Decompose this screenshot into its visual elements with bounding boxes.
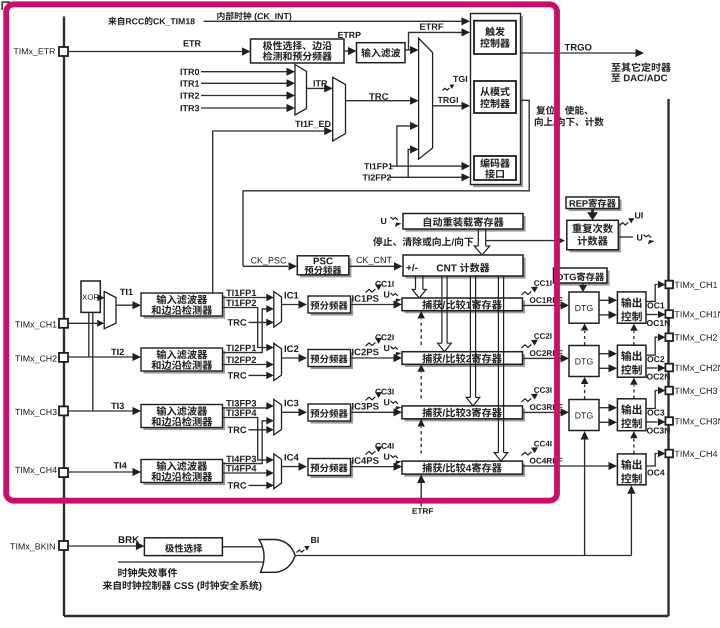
wire BRK: [68, 545, 136, 547]
arrowhead TI1F_ED: [324, 127, 333, 135]
wire TRGI: [433, 105, 462, 107]
label TI2: [111, 349, 124, 355]
arrowhead TI3FP3: [266, 402, 274, 410]
wire ITR1: [201, 82, 287, 84]
arrowhead TRC: [410, 97, 419, 105]
arrowhead TI2FP2 branch: [410, 145, 419, 153]
arrowhead ITR into TRC mux: [324, 84, 333, 92]
arrowhead TRC row3: [266, 426, 274, 434]
arrowhead OC2REF into DTG: [561, 354, 570, 362]
wire TI4FP3 cross up: [223, 421, 267, 464]
wire DTG3 out A: [599, 407, 609, 409]
box: capture/compare 1 register: [405, 301, 525, 314]
box: trigger/slave controller outer: [473, 16, 523, 187]
label +/-: [406, 264, 417, 271]
arrowhead IC2PS into CC2: [394, 354, 403, 362]
arrowhead OC3N: [658, 418, 666, 426]
event squiggle U row4: [391, 455, 398, 458]
label TI3FP3: [226, 400, 256, 407]
box: input filter (ETR): [357, 43, 406, 63]
label TIMx_CH1N: [675, 311, 720, 319]
mux: IC2 select: [274, 343, 282, 380]
wire dashed break chain output control: [633, 331, 635, 345]
arrowhead ETRP: [348, 47, 357, 55]
label OC3REF: [530, 404, 563, 410]
arrowhead TI1FP2 into IC mux: [266, 344, 274, 352]
wire IC4: [282, 466, 300, 468]
wire polarity to OR gate: [222, 546, 262, 548]
box: auto-reload register: [406, 216, 526, 232]
wire ETRP: [344, 50, 349, 52]
event squiggle U into ARR: [391, 217, 398, 220]
arrowhead CH1 into TI1 mux: [97, 320, 104, 327]
arrowhead OC3REF into DTG: [561, 408, 570, 416]
wire OC2N to pin: [646, 367, 658, 369]
arrowhead DTG1 out A: [609, 296, 618, 304]
box: REP register: [569, 200, 622, 212]
label OC1: [647, 302, 664, 308]
arrowhead TI1FP1 into encoder: [462, 162, 471, 170]
event squiggle CC1I right: [522, 291, 532, 295]
arrowhead OC4REF into output control 4: [609, 462, 618, 470]
label IC2PS: [352, 349, 379, 356]
wire dashed break chain DTG: [584, 331, 586, 345]
mux: TRC select: [333, 77, 346, 141]
pin TIMx_CH1N: [665, 310, 673, 318]
label TI2FP2: [226, 357, 256, 364]
pin TIMx_CH2N: [665, 364, 673, 372]
label TIMx_CH2 input: [15, 355, 56, 363]
event squiggle CC4I right: [522, 452, 532, 456]
wire XOR input from CH3: [92, 312, 94, 411]
wire dashed break chain DTG: [584, 385, 586, 400]
box: input filter edge detector 2: [144, 351, 226, 374]
pin TIMx_CH4: [665, 450, 673, 458]
box: DTG register: [556, 271, 610, 286]
box: slave mode controller: [474, 81, 516, 113]
box: output control 4: [617, 454, 646, 485]
label TI1FP1 (trigger): [364, 163, 393, 169]
arrowhead OC1: [658, 281, 666, 289]
box: prescaler 2: [311, 352, 354, 369]
label TI3: [111, 403, 124, 410]
label U row3: [384, 399, 389, 405]
arrowhead TI4: [133, 468, 142, 476]
label TIMx_CH1: [675, 282, 718, 290]
arrowhead ITR0: [287, 68, 296, 76]
arrowhead CK_CNT: [394, 262, 403, 270]
mux: trigger select (big): [419, 38, 433, 159]
label: stop clear up/down: [373, 237, 473, 246]
label U row2: [384, 345, 389, 351]
corner mark top-left: [2, 2, 10, 10]
wire CH1 to TI1 mux: [68, 322, 97, 324]
wire TRC row1: [249, 321, 267, 323]
label DTG 3: [575, 412, 592, 418]
wire CK_PSC: [243, 265, 288, 267]
label IC1PS: [352, 295, 379, 302]
event squiggle CC3I right: [522, 398, 532, 402]
label TI1: [120, 289, 133, 295]
wire TI1FP1 branch to big mux: [397, 126, 411, 166]
box: prescaler 1: [311, 299, 354, 316]
label CK_PSC: [251, 257, 286, 265]
arrowhead BI into output control 4: [627, 485, 635, 494]
wire bottom bus horizontal: [64, 615, 669, 617]
wire IC2PS: [351, 357, 394, 359]
wire XOR input from CH2: [88, 312, 90, 357]
arrowhead IC4PS into CC4: [394, 463, 403, 471]
label U (ARR): [381, 218, 386, 224]
arrowhead TRC row2: [266, 372, 274, 380]
label TIMx_CH4 input: [15, 467, 57, 475]
wire right bus vertical: [667, 99, 669, 616]
event squiggle TGI: [443, 88, 450, 91]
box: encoder interface: [474, 156, 516, 180]
label ETR: [184, 40, 201, 46]
wire TI2FP1 cross up: [223, 309, 267, 353]
label TI4: [114, 462, 127, 468]
pin TIMx_CH4 input: [59, 468, 68, 477]
wire TI3FP3: [223, 407, 267, 409]
wire BI up to output control 4: [630, 493, 632, 556]
arrowhead TI2: [133, 353, 142, 361]
label TIMx_ETR: [14, 48, 55, 56]
label TRC row2: [228, 372, 247, 379]
label BI: [311, 537, 319, 543]
mux: IC3 select: [274, 399, 282, 435]
wire DTG1 out A: [599, 299, 609, 301]
arrowhead DTG2 out A: [609, 350, 618, 358]
event squiggle U repetition: [644, 235, 651, 238]
pin TIMx_BKIN: [59, 541, 68, 550]
pin TIMx_ETR: [59, 47, 68, 56]
wire TI2FP2 trigger: [389, 176, 463, 178]
box: PSC prescaler: [300, 258, 352, 277]
label OC4REF: [530, 458, 563, 464]
arrowhead IC1PS into CC1: [394, 300, 403, 308]
mux: ITR select: [295, 65, 307, 116]
wire DTG3 out B: [599, 421, 609, 423]
event squiggle U row3: [391, 401, 398, 404]
arrowhead DTG3 out B: [609, 418, 618, 426]
arrowhead TI3: [133, 407, 142, 415]
pin TIMx_CH1: [665, 281, 673, 289]
box: capture/compare 3 register: [405, 409, 525, 422]
event squiggle CC4I left: [366, 451, 376, 455]
arrowhead TI1FP1 branch: [410, 122, 419, 130]
wire DTG1 out B: [599, 314, 609, 316]
arrowhead dashed into output control: [630, 378, 638, 385]
wire TRGO: [521, 52, 636, 54]
hollow arrow ARR to CNT: [478, 229, 485, 246]
label U row4: [384, 454, 389, 460]
pin TIMx_CH2 input: [59, 353, 68, 362]
wire TI1FP1: [223, 297, 267, 299]
wire IC1PS: [351, 304, 394, 306]
arrowhead ETRF dashed into CC: [417, 311, 425, 319]
label TI1F_ED: [295, 121, 331, 128]
box: polarity select edge detect prescaler: [251, 39, 345, 63]
label OC2N: [647, 374, 670, 380]
box: output control 1: [617, 292, 646, 323]
box: DTG 3: [569, 400, 599, 431]
arrowhead DTG register into DTG1: [579, 285, 587, 292]
arrowhead dashed into output control: [630, 324, 638, 331]
wire ETRF up and right: [409, 32, 463, 50]
label CK_CNT: [357, 257, 392, 265]
wire TI4FP4: [223, 472, 267, 474]
label TI1FP2: [226, 300, 256, 307]
arrowhead OC4: [658, 450, 666, 458]
box: CNT counter: [406, 258, 526, 279]
arrowhead TRC row4: [266, 482, 274, 490]
label CC1I left: [375, 281, 393, 287]
pin TIMx_CH1 input: [59, 319, 68, 328]
wire dashed break chain output control: [633, 439, 635, 454]
wire ETR: [68, 51, 242, 53]
label IC1: [285, 292, 299, 299]
arrowhead IC4: [299, 463, 308, 471]
label OC1REF: [530, 297, 563, 303]
label OC3: [647, 410, 664, 416]
wire ETRF dashed segment: [420, 319, 422, 345]
arrowhead OC3: [658, 387, 666, 395]
arrowhead TI4FP4: [266, 469, 274, 477]
arrowhead TI4FP3 into IC mux: [266, 417, 274, 425]
label TIMx_BKIN: [10, 543, 55, 551]
wire TRC to big mux: [346, 100, 411, 102]
wire dashed break chain output control: [633, 385, 635, 398]
label IC4: [285, 454, 299, 461]
label TRGI: [438, 97, 458, 103]
wire clock failure event: [118, 561, 263, 563]
box: capture/compare 2 register: [405, 354, 525, 367]
wire IC2: [282, 357, 300, 359]
label TRC row3: [228, 427, 247, 434]
arrowhead TI2FP1 into IC mux: [266, 305, 274, 313]
OR gate break: [259, 540, 295, 573]
label ITR0: [181, 69, 200, 75]
label: internal clock CK_INT: [217, 12, 291, 21]
pin TIMx_CH3: [665, 387, 673, 395]
label U (repetition): [637, 234, 642, 240]
wire BI distribution: [295, 555, 631, 557]
box: polarity select (BRK): [144, 538, 222, 556]
arrowhead DTG2 out B: [609, 364, 618, 372]
label CC4I left: [375, 443, 393, 449]
label TI4FP3: [226, 456, 256, 463]
wire TI3: [68, 410, 133, 412]
label TIMx_CH3 input: [15, 409, 57, 417]
label DTG 2: [575, 358, 592, 364]
hollow arrow CNT to CC1: [416, 276, 423, 290]
label TRGO: [565, 44, 592, 51]
wire IC3PS: [351, 411, 394, 413]
box: output control 2: [617, 345, 646, 377]
box: capture/compare 4 register: [405, 464, 525, 477]
wire ITR0: [201, 71, 287, 73]
event squiggle CC3I left: [366, 397, 376, 401]
hollow arrow CNT to CC2: [442, 276, 447, 343]
label TI2FP2 (trigger): [363, 174, 391, 180]
hollow arrow CNT to CC3: [470, 276, 475, 397]
box: prescaler 4: [311, 461, 354, 478]
label TIMx_CH2: [675, 334, 718, 342]
label ETRP: [338, 32, 361, 38]
label: to DAC/ADC: [611, 74, 667, 82]
label TI4FP4: [226, 465, 256, 471]
box: XOR: [81, 281, 100, 312]
arrowhead TRGO: [636, 49, 645, 57]
arrowhead CK_INT into trigger controller: [462, 17, 471, 25]
arrowhead ITR3: [287, 104, 296, 112]
wire TI3FP4 cross down: [223, 418, 267, 460]
wire IC4PS: [351, 466, 394, 468]
pin TIMx_CH3 input: [59, 406, 68, 415]
label U row1: [384, 291, 389, 297]
arrowhead dashed into DTG: [581, 324, 589, 331]
event squiggle UI: [620, 222, 629, 225]
box: prescaler 3: [311, 407, 354, 424]
event squiggle U row1: [391, 293, 398, 296]
label CC4I right: [534, 441, 551, 447]
arrowhead U into repetition counter: [557, 237, 566, 245]
wire OC2REF: [523, 357, 561, 359]
arrowhead dashed into DTG: [581, 377, 589, 384]
mux: IC1 select: [274, 292, 282, 328]
wire IC1: [282, 304, 300, 306]
wire OC1REF: [523, 304, 561, 306]
wire TI4: [68, 471, 133, 473]
arrowhead BRK: [136, 542, 145, 550]
wire BI up to DTG3: [584, 439, 586, 556]
arrowhead DTG1 out B: [609, 311, 618, 319]
arrowhead ITR1: [287, 79, 296, 87]
arrowhead TRC row1: [266, 319, 274, 327]
wire TI2: [68, 356, 133, 358]
box: output control 3: [617, 399, 646, 431]
label TIMx_CH1 input: [15, 321, 56, 329]
arrowhead IC3PS into CC3: [394, 408, 403, 416]
label ITR2: [181, 93, 200, 99]
arrowhead ETRF dashed into CC: [417, 419, 425, 427]
label TI1FP1: [226, 290, 256, 296]
label: clock failure event: [118, 568, 177, 578]
label ITR: [314, 80, 328, 86]
arrowhead dashed into output control: [630, 431, 638, 438]
arrowhead TRGI: [462, 102, 471, 110]
wire TI1: [116, 304, 133, 306]
box: input filter edge detector 3: [144, 407, 226, 430]
label OC2REF: [530, 350, 563, 356]
wire TI2FP2 branch to big mux: [408, 149, 410, 177]
event squiggle CC2I right: [522, 344, 532, 348]
wire TRC row2: [249, 374, 267, 376]
label CC3I right: [534, 387, 551, 393]
arrowhead CK_PSC: [289, 262, 298, 270]
wire OC3N to pin: [646, 421, 658, 423]
label DTG 1: [575, 305, 592, 311]
wire IC3: [282, 411, 300, 413]
wire U out of repetition counter: [618, 236, 633, 238]
arrowhead ETRF dashed into CC: [417, 364, 425, 372]
arrowhead IC3: [299, 408, 308, 416]
wire OC1 to pin: [646, 285, 658, 302]
wire ETRF up: [420, 483, 422, 507]
label OC1N: [647, 320, 670, 326]
wire REP to repetition counter: [591, 209, 594, 213]
box: DTG 1: [569, 292, 599, 323]
arrowhead IC1: [299, 300, 308, 308]
wire ITR2: [201, 95, 287, 97]
label TRC row4: [228, 482, 247, 489]
arrowhead ETRF into CC4: [417, 475, 425, 484]
event squiggle CC2I left: [366, 343, 376, 347]
label ITR1: [181, 80, 200, 86]
label ETRF top: [420, 24, 443, 30]
wire CK_CNT: [349, 265, 394, 267]
label UI: [635, 212, 643, 218]
arrowhead ITR2: [287, 91, 296, 99]
wire left bus vertical: [63, 17, 65, 617]
label OC2: [647, 356, 664, 362]
arrowhead BI into DTG3: [581, 431, 589, 440]
label BRK: [119, 536, 139, 543]
wire TRC row3: [249, 429, 267, 431]
arrowhead TI2FP2 into encoder: [462, 173, 471, 181]
hollow arrow CNT to CC4: [498, 276, 503, 453]
wire DTG2 out B: [599, 367, 609, 369]
wire slave mode feedback: [243, 100, 529, 266]
arrowhead DTG3 out A: [609, 404, 618, 412]
label IC2: [285, 345, 299, 352]
label IC4PS: [352, 457, 379, 464]
label: from RCC CK_TIM18: [108, 17, 195, 26]
label CC2I left: [375, 334, 393, 340]
box: trigger controller: [474, 21, 516, 54]
label CC1I right: [534, 280, 551, 286]
highlight border (magenta rounded rect): [6, 4, 557, 500]
pin TIMx_CH2: [665, 333, 673, 341]
wire ITR3: [201, 107, 287, 109]
label ITR3: [181, 105, 200, 111]
label XOR: [82, 294, 98, 300]
wire ITR out: [307, 87, 325, 89]
label OC3N: [647, 428, 670, 434]
arrowhead TI1: [133, 301, 142, 309]
wire U to repetition counter: [486, 240, 557, 242]
label IC3: [285, 400, 299, 407]
wire OC3REF: [523, 411, 561, 413]
arrowhead into big mux: [410, 46, 419, 54]
arrowhead ETRF into trigger controller: [462, 28, 471, 36]
label TIMx_CH4: [675, 451, 718, 459]
pin TIMx_CH3N: [665, 417, 673, 425]
wire TI1FP2 cross down: [223, 308, 267, 348]
label CNT counter: [437, 263, 490, 272]
label TI2FP1: [226, 345, 256, 352]
wire TI1FP1 trigger: [391, 165, 463, 167]
label TGI: [453, 76, 467, 82]
label TRC top: [369, 93, 388, 100]
box: repetition counter: [569, 223, 621, 253]
label CC3I left: [375, 389, 393, 395]
wire OC2 to pin: [646, 337, 658, 355]
label TIMx_CH3N: [675, 418, 720, 426]
label CC2I right: [534, 333, 551, 339]
mux: TI1 select (XOR/CH1): [104, 292, 116, 329]
